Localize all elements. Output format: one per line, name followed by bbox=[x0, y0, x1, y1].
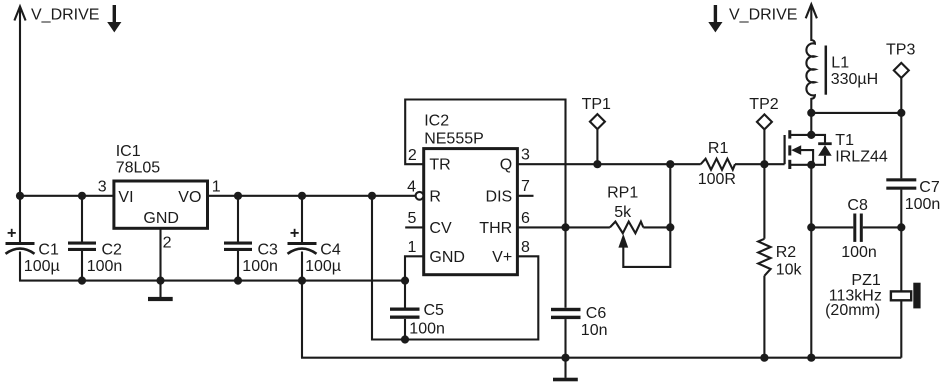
ground symbol bar bottom bbox=[553, 378, 578, 382]
wire: L1 bottom to drain node bbox=[810, 98, 812, 135]
svg-text:C6: C6 bbox=[586, 305, 607, 322]
driver arrow down (right) bbox=[708, 5, 722, 32]
svg-text:3: 3 bbox=[521, 146, 530, 163]
svg-text:100µ: 100µ bbox=[24, 258, 60, 275]
capacitor C2 plates bbox=[68, 242, 96, 245]
svg-text:4: 4 bbox=[407, 178, 416, 195]
test point TP2 diamond bbox=[757, 114, 772, 129]
capacitor C8 plates bbox=[853, 214, 856, 242]
capacitor C5 leads bbox=[404, 281, 406, 308]
wire: THR line pin 6 to RP1 bbox=[517, 226, 610, 228]
capacitor C2 leads bbox=[81, 196, 83, 242]
svg-text:100n: 100n bbox=[242, 258, 278, 275]
resistor R1 zigzag bbox=[701, 159, 735, 170]
svg-text:C2: C2 bbox=[102, 242, 123, 259]
svg-text:TP1: TP1 bbox=[582, 96, 611, 113]
svg-text:VI: VI bbox=[118, 189, 133, 206]
wire: feedback Q to RP1 node bbox=[669, 164, 671, 227]
test point TP3 diamond bbox=[894, 63, 909, 78]
capacitor C3 leads bbox=[237, 196, 239, 242]
svg-text:1: 1 bbox=[212, 178, 221, 195]
svg-text:IC2: IC2 bbox=[424, 112, 449, 129]
wire: IC1 GND pin 2 down bbox=[159, 228, 161, 297]
piezo PZ1 leads bbox=[900, 227, 902, 291]
capacitor C3 plates bbox=[224, 242, 252, 245]
svg-text:100µ: 100µ bbox=[305, 258, 341, 275]
svg-text:GND: GND bbox=[429, 249, 465, 266]
capacitor C5 plates bbox=[390, 308, 420, 311]
T1 body diode branch bbox=[811, 135, 825, 143]
svg-text:V+: V+ bbox=[492, 249, 512, 266]
svg-text:100n: 100n bbox=[87, 258, 123, 275]
ground symbol stem bottom bbox=[564, 358, 566, 378]
svg-text:100R: 100R bbox=[698, 171, 736, 188]
svg-text:CV: CV bbox=[429, 220, 452, 237]
transistor T1 gate bar bbox=[783, 135, 785, 164]
wire: drain node to TP3/C7 bbox=[811, 112, 901, 114]
inductor L1 coil bbox=[806, 40, 815, 99]
test point TP1 diamond bbox=[590, 114, 605, 129]
power flag V_DRIVE left: arrow up bbox=[14, 7, 25, 196]
capacitor C1 leads bbox=[19, 196, 21, 242]
C1 polarity plus sign bbox=[8, 232, 16, 234]
wire: RP1 right terminal lead bbox=[643, 226, 670, 228]
transistor T1 body link to source bbox=[801, 150, 814, 165]
svg-text:3: 3 bbox=[98, 178, 107, 195]
svg-text:8: 8 bbox=[521, 239, 530, 256]
capacitor C4 electrolytic plates bbox=[288, 242, 317, 245]
svg-text:100n: 100n bbox=[409, 321, 445, 338]
T1 body diode cathode bar bbox=[818, 142, 832, 145]
svg-text:2: 2 bbox=[408, 147, 417, 164]
svg-text:330µH: 330µH bbox=[831, 71, 878, 88]
transistor T1 channel segments bbox=[788, 130, 791, 138]
svg-text:(20mm): (20mm) bbox=[825, 302, 880, 319]
svg-text:78L05: 78L05 bbox=[116, 160, 161, 177]
ground symbol under IC1 bbox=[148, 297, 173, 301]
capacitor C6 plates bbox=[551, 308, 581, 311]
wire: C6 to bottom ground rail bbox=[564, 319, 566, 358]
potentiometer RP1 zigzag bbox=[610, 222, 643, 234]
svg-text:IRLZ44: IRLZ44 bbox=[835, 149, 888, 166]
capacitor C1 electrolytic plates bbox=[6, 242, 35, 245]
inductor L1 core bar bbox=[825, 46, 828, 95]
svg-text:T1: T1 bbox=[835, 132, 854, 149]
capacitor C7 plates bbox=[886, 178, 916, 181]
piezo PZ1 body bbox=[891, 291, 911, 300]
svg-text:R1: R1 bbox=[708, 140, 729, 157]
wire: +5V rail IC1 pin 1 to IC2 R bubble bbox=[207, 195, 416, 197]
T1 body diode triangle bbox=[818, 145, 832, 156]
transistor T1 drain stub bbox=[791, 134, 811, 136]
svg-text:C3: C3 bbox=[258, 242, 279, 259]
svg-text:RP1: RP1 bbox=[607, 185, 638, 202]
transistor T1 source stub bbox=[791, 164, 811, 166]
RP1 wiper arrow bbox=[618, 234, 628, 248]
svg-text:V_DRIVE: V_DRIVE bbox=[729, 7, 797, 24]
svg-text:IC1: IC1 bbox=[116, 143, 141, 160]
wire: V+ supply branch down from +5V rail bbox=[372, 196, 538, 340]
driver arrow down (left) bbox=[107, 5, 121, 32]
svg-text:1: 1 bbox=[407, 239, 416, 256]
svg-text:DIS: DIS bbox=[486, 188, 513, 205]
svg-text:C8: C8 bbox=[847, 197, 868, 214]
svg-text:2: 2 bbox=[163, 235, 172, 252]
wire: Q output line pin 3 to R1 bbox=[517, 163, 700, 165]
svg-text:C1: C1 bbox=[38, 242, 59, 259]
svg-text:Q: Q bbox=[500, 157, 512, 174]
piezo PZ1 disc bbox=[913, 283, 920, 309]
capacitor C4 leads bbox=[301, 196, 303, 242]
svg-text:R: R bbox=[429, 188, 441, 205]
test point TP1 stem bbox=[596, 129, 598, 164]
wire: upper ground rail bbox=[19, 280, 405, 282]
IC2 NE555P body bbox=[424, 149, 518, 275]
wire: input rail from V_DRIVE to IC1 pin 3 bbox=[19, 195, 113, 197]
C4 polarity plus sign bbox=[291, 232, 299, 234]
test point TP2 stem bbox=[763, 129, 765, 164]
svg-text:100n: 100n bbox=[905, 196, 941, 213]
wire: RP1 wiper loop to right terminal bbox=[623, 227, 670, 267]
IC2 DIS pin 7 stub bbox=[517, 195, 533, 197]
test point TP3 stem bbox=[900, 78, 902, 113]
resistor R2 zigzag bbox=[758, 239, 770, 276]
svg-text:6: 6 bbox=[521, 210, 530, 227]
wire: R1 to T1 gate bbox=[735, 163, 785, 165]
svg-text:7: 7 bbox=[521, 178, 530, 195]
svg-text:C4: C4 bbox=[320, 242, 341, 259]
IC2 CV pin 5 stub bbox=[405, 226, 423, 228]
wire: TR pin 2 loop over IC2 to THR node bbox=[405, 100, 565, 308]
svg-text:TP3: TP3 bbox=[886, 42, 915, 59]
svg-text:V_DRIVE: V_DRIVE bbox=[31, 7, 99, 24]
svg-text:TR: TR bbox=[429, 157, 450, 174]
resistor R2 top lead bbox=[763, 164, 765, 239]
svg-text:TP2: TP2 bbox=[749, 96, 778, 113]
svg-text:L1: L1 bbox=[831, 55, 849, 72]
transistor T1 body arrow bbox=[791, 145, 801, 155]
svg-text:C5: C5 bbox=[424, 302, 445, 319]
capacitor C8 leads bbox=[811, 226, 853, 228]
svg-text:5: 5 bbox=[407, 210, 416, 227]
svg-text:5k: 5k bbox=[614, 204, 632, 221]
svg-text:NE555P: NE555P bbox=[424, 131, 484, 148]
svg-text:THR: THR bbox=[479, 220, 512, 237]
svg-text:C7: C7 bbox=[919, 179, 940, 196]
wire: T1 source down to ground rail bbox=[810, 165, 812, 358]
resistor R2 bottom lead bbox=[763, 276, 765, 358]
svg-text:10n: 10n bbox=[581, 322, 608, 339]
capacitor C7 leads bbox=[900, 113, 902, 178]
wire: IC2 GND pin 1 stub bbox=[405, 256, 423, 280]
IC1 78L05 regulator body bbox=[114, 181, 208, 228]
svg-text:GND: GND bbox=[143, 210, 179, 227]
svg-text:10k: 10k bbox=[776, 261, 803, 278]
svg-text:100n: 100n bbox=[841, 244, 877, 261]
IC2 reset bubble pin 4 bbox=[416, 192, 424, 200]
wire: ground riser to bottom rail bbox=[301, 281, 303, 358]
wire: bottom ground rail bbox=[301, 357, 901, 359]
svg-text:VO: VO bbox=[178, 189, 201, 206]
power flag V_DRIVE right: arrow up bbox=[806, 4, 817, 41]
svg-text:R2: R2 bbox=[776, 244, 797, 261]
